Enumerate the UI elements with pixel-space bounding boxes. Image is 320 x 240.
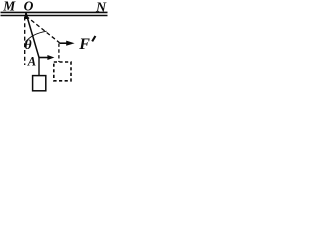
arrow F' (60, 42, 68, 44)
dashed displaced block (54, 62, 71, 81)
svg-text:A: A (27, 54, 36, 68)
arrow at A (horizontal force) (39, 57, 49, 59)
dashed displaced string O to Q (26, 16, 60, 43)
svg-text:F: F (78, 36, 90, 53)
angle arc (25, 31, 46, 42)
svg-text:N: N (95, 0, 107, 15)
svg-text:θ: θ (24, 38, 32, 53)
ceiling bottom line (1, 15, 108, 17)
vertical dashed reference line from O (24, 17, 26, 66)
svg-text:O: O (24, 0, 34, 13)
ceiling top line (1, 11, 108, 13)
attachment knot at O (25, 13, 27, 19)
solid block (33, 76, 46, 91)
string A to block (38, 58, 40, 76)
dashed string Q to displaced block (58, 44, 60, 63)
string O to A (solid, at angle theta) (26, 13, 39, 58)
svg-text:M: M (2, 0, 16, 13)
